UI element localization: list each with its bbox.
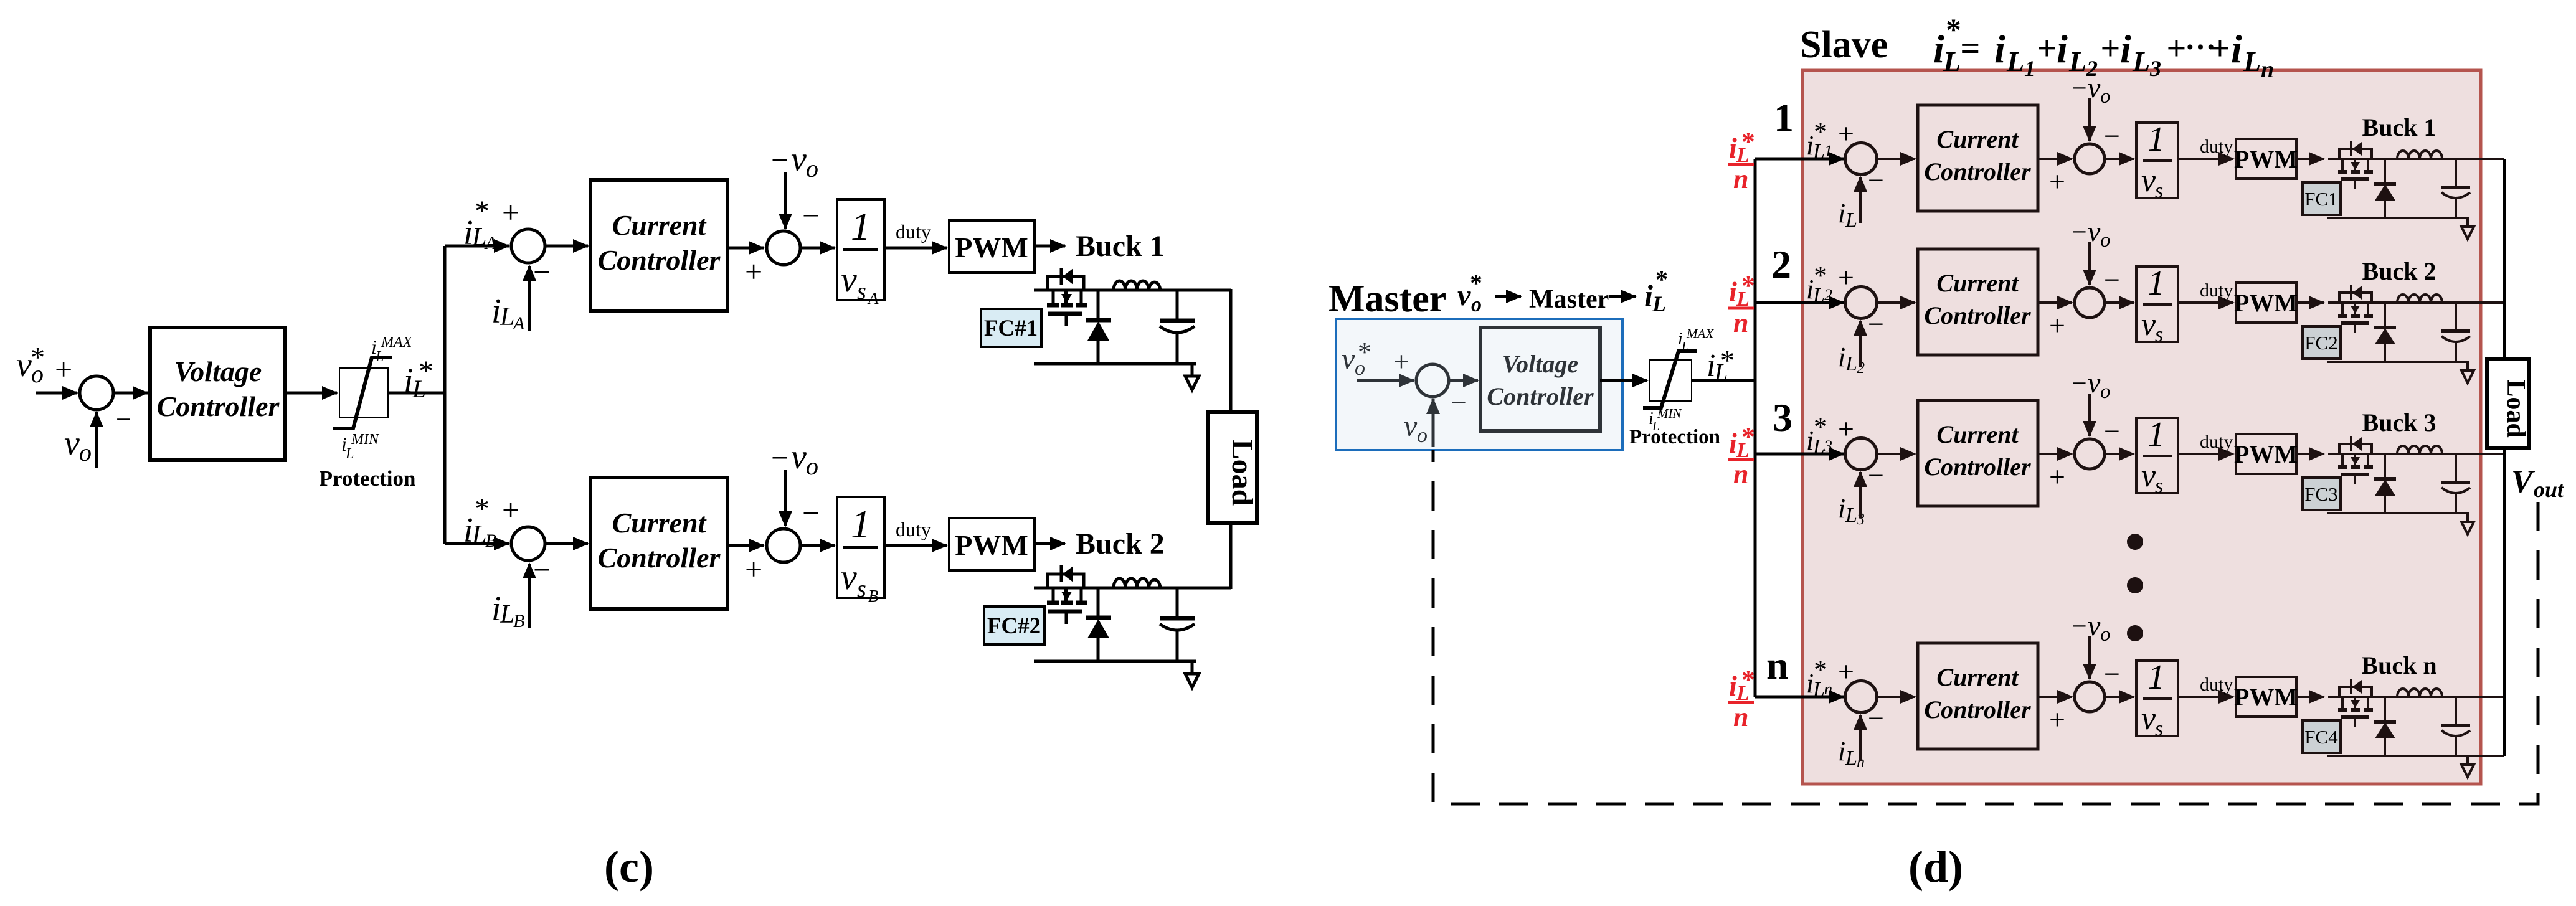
wire to gain block row n <box>2105 696 2134 698</box>
wire iLn up into summing junction row n <box>1859 715 1862 761</box>
wire gain to PWM B with duty label <box>884 544 947 547</box>
svg-text:Buck 1: Buck 1 <box>1076 230 1165 263</box>
node Vout label <box>2511 464 2564 502</box>
svg-text:v: v <box>2141 458 2156 494</box>
gain block 1/vsB <box>837 497 884 605</box>
load bus upper segment <box>2503 159 2506 359</box>
wire S6 to voltage controller master <box>1449 379 1478 382</box>
PWM A box <box>949 220 1035 273</box>
FC3 box <box>2303 478 2341 510</box>
PWM box row n <box>2234 677 2298 717</box>
node iLn* reference label <box>1806 654 1832 701</box>
svg-text:o: o <box>79 438 92 466</box>
svg-text:L: L <box>1845 747 1857 770</box>
node iLn feedback label row n <box>1838 736 1865 771</box>
svg-text:s: s <box>857 576 866 602</box>
current controller B box <box>590 478 727 609</box>
svg-text:=: = <box>1960 29 1980 68</box>
svg-text:1: 1 <box>851 204 871 248</box>
wire -vo down into summing junction 2 row n <box>2088 636 2091 679</box>
wire iL1 up into summing junction row 1 <box>1859 177 1862 223</box>
wire bus to summing junction row n <box>1755 696 1844 699</box>
svg-text:v: v <box>1404 410 1418 443</box>
wire vo* into S6 <box>1357 379 1414 382</box>
node -vo label branch B <box>771 438 818 480</box>
slave current sum equation <box>1933 12 2274 83</box>
svg-text:Slave: Slave <box>1800 24 1888 66</box>
svg-text:−: − <box>2104 415 2120 447</box>
svg-text:L: L <box>345 446 354 462</box>
summing junction SA <box>511 229 545 263</box>
svg-text:Controller: Controller <box>1924 453 2031 481</box>
svg-text:1: 1 <box>2147 120 2165 159</box>
svg-text:A: A <box>512 313 525 334</box>
svg-text:−: − <box>1868 308 1884 340</box>
wire current controller A to summing junction <box>727 247 764 250</box>
summing junction row n input <box>1845 681 1877 713</box>
svg-text:Controller: Controller <box>598 542 721 573</box>
svg-text:*: * <box>419 355 433 388</box>
summing junction row 1 input <box>1845 143 1877 175</box>
wire load to buck 2 output <box>1229 523 1233 589</box>
FC2 box <box>2303 326 2341 359</box>
svg-text:n: n <box>1733 164 1748 194</box>
node vo* input label <box>16 341 45 388</box>
node iL MIN limit label master <box>1649 406 1682 433</box>
svg-text:FC#1: FC#1 <box>984 316 1038 341</box>
svg-text:Current: Current <box>1936 125 2019 153</box>
svg-text:PWM: PWM <box>955 529 1028 561</box>
buck converter Buck 2 circuit <box>1034 565 1231 687</box>
node iL*/n reference row 1 <box>1728 126 1755 194</box>
svg-text:−: − <box>2104 658 2120 690</box>
svg-text:i: i <box>2231 27 2242 71</box>
svg-text:o: o <box>1417 424 1428 447</box>
wire vo* into S1 <box>36 392 77 395</box>
current controller row 2 box <box>1918 249 2038 355</box>
PWM box row 1 <box>2234 139 2298 179</box>
buck converter Buck 1 circuit <box>1034 268 1231 390</box>
PWM B box <box>949 518 1035 570</box>
svg-text:v: v <box>791 438 807 476</box>
summing junction row 2 input <box>1845 287 1877 319</box>
svg-text:−: − <box>116 404 131 435</box>
svg-text:MAX: MAX <box>381 334 413 351</box>
svg-text:3: 3 <box>1773 395 1792 440</box>
svg-text:v: v <box>841 259 857 300</box>
wire PWM to buck n <box>2296 696 2324 698</box>
svg-text:1: 1 <box>1774 95 1794 139</box>
svg-text:PWM: PWM <box>2234 145 2298 173</box>
node iLA feedback label <box>491 292 525 334</box>
svg-text:*: * <box>1946 12 1961 47</box>
svg-text:MAX: MAX <box>1686 326 1714 341</box>
node iL* label master <box>1707 344 1735 385</box>
svg-text:Controller: Controller <box>1924 158 2031 186</box>
svg-text:−: − <box>533 255 551 290</box>
svg-text:v: v <box>2141 307 2156 342</box>
wire protection to slave bus <box>1692 379 1755 382</box>
svg-text:s: s <box>2155 323 2163 346</box>
wire bus to summing junction SB <box>445 542 509 545</box>
load bus lower segment <box>2503 448 2506 756</box>
svg-text:Buck 1: Buck 1 <box>2362 113 2436 141</box>
svg-text:B: B <box>485 531 496 551</box>
wire PWM to buck 3 <box>2296 453 2324 455</box>
node -vo label branch A <box>771 140 818 182</box>
wire buck 1 output down to load <box>1229 289 1233 412</box>
node iLB* reference label <box>463 493 496 551</box>
summing junction 2 row 3 <box>2075 439 2105 469</box>
PWM box row 3 <box>2234 434 2298 474</box>
svg-text:L: L <box>1845 352 1857 375</box>
svg-text:L: L <box>1652 291 1666 316</box>
buck converter row 2 circuit (d) <box>2327 285 2504 383</box>
svg-text:duty: duty <box>2200 280 2233 301</box>
svg-text:(c): (c) <box>604 842 654 892</box>
svg-text:L: L <box>1845 504 1857 527</box>
svg-text:L: L <box>1845 209 1857 232</box>
svg-text:Voltage: Voltage <box>1502 350 1578 378</box>
gain block 1/vs row 3 <box>2136 415 2178 498</box>
summing junction S1 <box>80 376 113 410</box>
wire to gain block row 2 <box>2105 301 2134 304</box>
wire S1 to voltage controller <box>113 392 148 395</box>
svg-text:*: * <box>1470 269 1482 297</box>
node vo* label master <box>1342 337 1371 380</box>
svg-text:s: s <box>2155 179 2163 202</box>
svg-text:Buck 2: Buck 2 <box>1076 527 1165 560</box>
svg-text:FC2: FC2 <box>2304 332 2337 354</box>
node iL MAX limit label master <box>1678 326 1714 354</box>
svg-text:duty: duty <box>2200 136 2233 157</box>
buck converter row 3 circuit (d) <box>2327 436 2504 534</box>
svg-text:+: + <box>2049 461 2065 493</box>
wire voltage controller to protection <box>285 392 337 395</box>
wire to current controller row n <box>1877 696 1915 698</box>
node iL MIN limit label <box>341 432 380 462</box>
node iL* label <box>404 355 433 403</box>
svg-text:−: − <box>1868 702 1884 734</box>
svg-text:2: 2 <box>1771 242 1791 286</box>
svg-text:i: i <box>1838 736 1845 767</box>
svg-text:A: A <box>484 233 497 253</box>
svg-text:Controller: Controller <box>157 390 280 422</box>
svg-text:o: o <box>2100 229 2111 252</box>
current controller row n box <box>1918 643 2038 749</box>
node iL*/n reference row 2 <box>1728 270 1755 338</box>
svg-text:−: − <box>1451 387 1467 418</box>
node iLA* reference label <box>463 195 497 253</box>
svg-text:v: v <box>791 140 807 179</box>
svg-text:+: + <box>745 552 762 587</box>
wire PWM to buck 1 <box>2296 158 2324 160</box>
wire to gain block row 3 <box>2105 453 2134 455</box>
svg-text:duty: duty <box>896 518 931 540</box>
svg-text:out: out <box>2534 477 2564 502</box>
current controller row 1 box <box>1918 105 2038 211</box>
svg-text:s: s <box>857 278 866 304</box>
svg-text:Controller: Controller <box>1487 382 1594 410</box>
wire iLB up into SB <box>528 564 531 628</box>
wire -vo down into summing junction branch B <box>784 470 787 526</box>
svg-text:Current: Current <box>612 209 707 241</box>
FC#1 box <box>981 309 1041 347</box>
svg-text:Protection: Protection <box>1629 426 1720 448</box>
svg-text:PWM: PWM <box>2234 289 2298 317</box>
wire to gain block branch B <box>800 544 835 547</box>
slave distribution bus <box>1754 159 1757 697</box>
svg-text:o: o <box>2100 623 2111 646</box>
svg-text:*: * <box>475 493 490 526</box>
svg-text:*: * <box>1814 654 1827 685</box>
svg-text:*: * <box>31 341 45 373</box>
svg-text:duty: duty <box>2200 432 2233 452</box>
svg-text:−: − <box>771 440 788 475</box>
wire SA to current controller A <box>545 245 588 248</box>
svg-text:duty: duty <box>2200 674 2233 695</box>
svg-text:*: * <box>1741 422 1755 452</box>
svg-text:A: A <box>867 289 879 308</box>
svg-text:3: 3 <box>2149 56 2161 81</box>
wire to current controller row 1 <box>1877 158 1915 160</box>
svg-text:+: + <box>502 195 519 230</box>
wire current controller to summing junction 2 row 3 <box>2038 453 2072 455</box>
wire -vo down into summing junction 2 row 3 <box>2088 394 2091 436</box>
voltage controller master box <box>1480 328 1600 431</box>
svg-text:1: 1 <box>2024 56 2035 81</box>
svg-text:Controller: Controller <box>1924 696 2031 724</box>
svg-text:B: B <box>868 587 879 605</box>
svg-text:+: + <box>55 352 72 387</box>
svg-text:PWM: PWM <box>955 232 1028 263</box>
svg-text:i: i <box>2057 27 2068 71</box>
wire -vo down into summing junction 2 row 1 <box>2088 98 2091 141</box>
summing junction 2 branch B <box>767 529 800 562</box>
svg-text:−: − <box>533 552 551 587</box>
svg-text:s: s <box>2155 474 2163 498</box>
wire PWM to buck 2 <box>2296 301 2324 304</box>
node -vo label row 3 <box>2072 367 2111 403</box>
svg-text:FC#2: FC#2 <box>987 613 1041 639</box>
svg-text:−: − <box>2104 120 2120 152</box>
node iL1 feedback label row 1 <box>1838 198 1857 232</box>
svg-text:i: i <box>1994 27 2005 71</box>
svg-text:o: o <box>806 154 818 182</box>
wire gain to PWM row n with duty label <box>2178 696 2233 698</box>
svg-text:PWM: PWM <box>2234 440 2298 468</box>
summing junction row 3 input <box>1845 438 1877 470</box>
svg-text:MIN: MIN <box>1657 406 1682 421</box>
wire to gain block row 1 <box>2105 158 2134 160</box>
wire current controller B to summing junction <box>727 544 764 547</box>
summing junction SB <box>511 527 545 560</box>
svg-text:−: − <box>802 496 820 531</box>
svg-text:+: + <box>2210 29 2230 68</box>
svg-text:+: + <box>2049 166 2065 197</box>
wire SB to current controller B <box>545 542 588 545</box>
wire current controller to summing junction 2 row n <box>2038 696 2072 698</box>
svg-text:L: L <box>2243 45 2261 77</box>
svg-text:Buck 3: Buck 3 <box>2362 408 2436 436</box>
current controller A box <box>590 180 727 311</box>
svg-text:L: L <box>1943 45 1961 77</box>
svg-text:v: v <box>2141 701 2156 737</box>
wire iL3 up into summing junction row 3 <box>1859 472 1862 518</box>
svg-text:−: − <box>2072 73 2087 103</box>
wire buck n bottom rail to load bus <box>2468 755 2504 757</box>
svg-text:Load: Load <box>1226 440 1259 506</box>
svg-text:+: + <box>502 493 519 527</box>
svg-text:n: n <box>1733 702 1748 732</box>
FC1 box <box>2303 182 2341 215</box>
summing junction 2 row n <box>2075 682 2105 712</box>
svg-text:−: − <box>1868 460 1884 491</box>
vertical ellipsis dots <box>2127 534 2143 641</box>
svg-text:*: * <box>1655 265 1668 293</box>
node iL3 feedback label row 3 <box>1838 493 1865 528</box>
svg-text:−: − <box>2072 217 2087 247</box>
wire gain to PWM row 1 with duty label <box>2178 158 2233 160</box>
buck converter row 1 circuit (d) <box>2327 141 2504 239</box>
svg-text:v: v <box>2141 163 2156 199</box>
slave pink region box <box>1802 70 2481 784</box>
wire voltage controller to protection master <box>1600 379 1647 382</box>
svg-text:*: * <box>1741 664 1755 695</box>
node vo feedback label <box>64 424 92 466</box>
wire bus to summing junction row 3 <box>1755 453 1844 456</box>
wire gain to PWM row 3 with duty label <box>2178 453 2233 455</box>
svg-text:*: * <box>1814 116 1827 147</box>
svg-text:1: 1 <box>2147 658 2165 697</box>
svg-text:n: n <box>2261 57 2274 83</box>
svg-text:MIN: MIN <box>351 432 380 448</box>
wire PWM B to Buck 2 <box>1035 542 1065 545</box>
svg-text:B: B <box>513 611 524 631</box>
master blue region box <box>1336 319 1622 450</box>
node vo label master <box>1404 410 1428 447</box>
wire -vo down into summing junction 2 row 2 <box>2088 242 2091 285</box>
svg-text:L: L <box>500 600 514 629</box>
svg-text:−: − <box>2104 264 2120 296</box>
svg-text:o: o <box>806 452 818 480</box>
svg-text:1: 1 <box>2147 415 2165 454</box>
wire vo up into S1 <box>95 412 98 468</box>
svg-text:n: n <box>1733 459 1748 489</box>
svg-text:*: * <box>1720 344 1735 376</box>
svg-text:−: − <box>2072 368 2087 399</box>
node iL*/n reference row 3 <box>1728 422 1755 489</box>
wire to current controller row 3 <box>1877 453 1915 455</box>
svg-text:v: v <box>64 424 80 463</box>
svg-text:i: i <box>1838 493 1845 524</box>
current controller row 3 box <box>1918 400 2038 506</box>
summing junction S6 <box>1416 364 1449 397</box>
svg-text:(d): (d) <box>1908 842 1963 892</box>
svg-text:i: i <box>1838 342 1845 372</box>
summing junction 2 row 1 <box>2075 144 2105 174</box>
svg-text:1: 1 <box>851 502 871 546</box>
svg-text:−: − <box>2072 611 2087 641</box>
wire current controller to summing junction 2 row 2 <box>2038 301 2072 304</box>
summing junction 2 branch A <box>767 231 800 265</box>
svg-text:L: L <box>500 303 514 331</box>
svg-text:FC3: FC3 <box>2304 483 2337 505</box>
svg-text:Protection: Protection <box>320 466 416 491</box>
svg-text:i: i <box>1838 198 1845 229</box>
svg-text:−: − <box>802 198 820 233</box>
svg-text:*: * <box>1814 412 1827 442</box>
svg-text:*: * <box>1741 270 1755 301</box>
wire to current controller row 2 <box>1877 301 1915 304</box>
protection saturation block <box>333 357 392 428</box>
wire vo up into S6 <box>1432 399 1435 447</box>
buck converter row n circuit (d) <box>2327 679 2504 777</box>
svg-text:Current: Current <box>1936 269 2019 297</box>
gain block 1/vsA <box>837 199 884 308</box>
PWM box row 2 <box>2234 283 2298 323</box>
svg-text:Load: Load <box>2501 379 2530 437</box>
svg-text:1: 1 <box>2147 264 2165 303</box>
wire iL2 up into summing junction row 2 <box>1859 321 1862 367</box>
wire bus to summing junction SA <box>445 245 509 248</box>
node iLB feedback label <box>491 590 524 631</box>
svg-text:v: v <box>1342 342 1355 375</box>
protection saturation block master <box>1643 351 1697 408</box>
svg-text:v: v <box>1457 279 1471 312</box>
voltage controller box <box>150 328 285 460</box>
svg-text:L: L <box>2006 45 2024 77</box>
wire branch bus vertical <box>443 246 447 544</box>
svg-text:Current: Current <box>612 507 707 539</box>
svg-text:*: * <box>1814 260 1827 291</box>
svg-text:L: L <box>375 349 384 365</box>
svg-text:Controller: Controller <box>598 244 721 276</box>
svg-text:s: s <box>2155 717 2163 740</box>
svg-text:o: o <box>2100 85 2111 108</box>
svg-text:v: v <box>16 346 32 384</box>
node -vo label row 1 <box>2072 72 2111 108</box>
svg-text:+: + <box>2166 29 2186 68</box>
wire bus to summing junction row 2 <box>1755 301 1844 304</box>
svg-text:Master: Master <box>1529 285 1609 314</box>
gain block 1/vs row 1 <box>2136 120 2178 202</box>
svg-text:FC1: FC1 <box>2304 188 2337 210</box>
svg-text:Current: Current <box>1936 663 2019 691</box>
svg-text:i: i <box>1644 278 1653 313</box>
node iL*/n reference row n <box>1728 664 1755 732</box>
svg-text:v: v <box>841 557 857 597</box>
svg-text:L: L <box>2132 45 2150 77</box>
wire PWM A to Buck 1 <box>1035 245 1065 248</box>
svg-text:Controller: Controller <box>1924 301 2031 329</box>
svg-text:*: * <box>1358 337 1371 367</box>
node -vo label row 2 <box>2072 215 2111 252</box>
load box (c) <box>1208 412 1259 523</box>
load box (d) <box>2487 359 2530 448</box>
svg-text:FC4: FC4 <box>2304 726 2338 748</box>
svg-text:+: + <box>745 254 762 289</box>
FC#2 box <box>984 606 1044 644</box>
wire gain to PWM row 2 with duty label <box>2178 301 2233 304</box>
svg-text:n: n <box>1766 643 1789 687</box>
svg-text:*: * <box>1741 126 1755 157</box>
wire gain to PWM A with duty label <box>884 247 947 250</box>
node -vo label row n <box>2072 610 2111 646</box>
svg-text:Buck 2: Buck 2 <box>2362 257 2436 285</box>
gain block 1/vs row n <box>2136 658 2178 740</box>
svg-text:V: V <box>2511 464 2536 499</box>
